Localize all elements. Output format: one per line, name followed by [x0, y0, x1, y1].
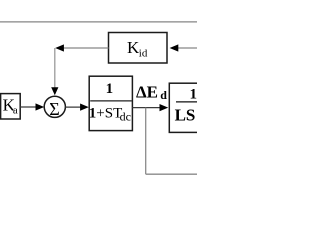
wire: vertical drop into summing junction	[54, 48, 56, 88]
arrowhead into converter block	[80, 104, 89, 111]
label signal dE_d	[136, 82, 167, 102]
svg-text:Σ: Σ	[49, 99, 59, 119]
svg-text:a: a	[13, 105, 18, 117]
wire: K_id output to left corner	[64, 47, 109, 49]
wire: converter output toward line block	[132, 107, 160, 109]
block U4 (1/LS dc line, clipped at right edge)	[169, 83, 209, 132]
label denominator 1+ST_dc	[89, 105, 131, 123]
arrowhead into line block	[160, 104, 169, 111]
wire: summing junction output to converter block	[65, 106, 82, 108]
svg-text:dc: dc	[120, 110, 131, 124]
svg-text:LS: LS	[175, 106, 196, 125]
block U3 (1/(1+ST_dc) converter lag)	[89, 76, 132, 130]
wire: input into K_id from right edge	[178, 47, 198, 49]
arrowhead into summing junction left	[36, 103, 45, 110]
wire: top horizontal bus line	[0, 21, 197, 23]
svg-text:ΔE: ΔE	[136, 82, 158, 101]
block U2 (K_a gain, clipped at left edge)	[1, 94, 21, 119]
wire: K_a output to summing junction	[20, 106, 37, 108]
arrowhead into top of summing junction	[51, 87, 58, 95]
wire: branch node vertical drop	[145, 108, 147, 175]
fraction bar	[176, 101, 197, 103]
wire: bottom feedback run to right edge	[146, 173, 197, 175]
svg-text:1: 1	[190, 87, 198, 103]
label K_a	[3, 95, 18, 116]
svg-text:d: d	[160, 88, 167, 102]
label K_id	[127, 38, 148, 60]
svg-text:1+ST: 1+ST	[89, 105, 122, 121]
arrowhead into K_id right side	[170, 44, 179, 51]
fraction bar	[90, 100, 132, 102]
arrowhead at corner pointing left	[55, 44, 64, 51]
svg-text:id: id	[139, 48, 148, 60]
svg-text:1: 1	[106, 81, 114, 97]
block U1 (K_id feedback gain)	[109, 33, 168, 64]
summing junction S1	[44, 96, 65, 117]
